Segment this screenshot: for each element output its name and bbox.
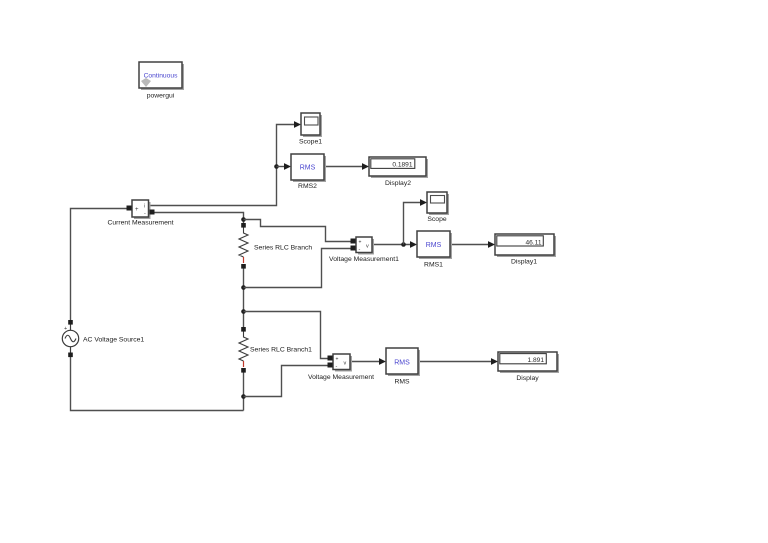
svg-text:RMS2: RMS2: [298, 183, 317, 190]
Series RLC Branch1 bottom port: [241, 368, 246, 373]
svg-text:+: +: [135, 207, 139, 213]
svg-text:v: v: [366, 244, 369, 250]
svg-text:Display1: Display1: [511, 259, 537, 266]
arrowhead into Display1: [488, 241, 495, 248]
powergui block: [139, 62, 184, 90]
wire: Series RLC Branch1 bottom down to bottom rail: [243, 371, 245, 411]
svg-text:Voltage Measurement: Voltage Measurement: [308, 374, 374, 381]
voltage measurement - port: [328, 363, 333, 368]
svg-text:Display: Display: [516, 375, 539, 382]
arrowhead into Display: [491, 358, 498, 365]
svg-text:+: +: [64, 326, 67, 332]
wire: RMS1 output to Display1: [450, 244, 493, 246]
svg-text:Voltage Measurement1: Voltage Measurement1: [329, 256, 399, 263]
node: junction on branch-top wire feeding Voltage Measurement1 +: [241, 217, 246, 222]
node: junction feeding Scope: [401, 242, 406, 247]
voltage measurement + port: [328, 356, 333, 361]
wire: Series RLC Branch bottom down to lower junction: [243, 267, 245, 328]
Series RLC Branch1 top port: [241, 327, 246, 332]
wire: Voltage Measurement1 v output to RMS1: [372, 244, 415, 246]
svg-text:RMS: RMS: [394, 379, 410, 386]
wire: junction to Voltage Measurement - input: [244, 366, 330, 397]
current measurement block: [132, 200, 151, 219]
RMS1 block: [417, 231, 452, 259]
svg-text:-: -: [144, 211, 146, 217]
svg-text:RMS: RMS: [394, 360, 410, 367]
arrowhead into RMS1: [410, 241, 417, 248]
svg-text:AC Voltage Source1: AC Voltage Source1: [83, 337, 144, 344]
wire: junction to Voltage Measurement + input: [244, 312, 330, 359]
RMS2 block: [291, 154, 326, 182]
wire: junction to Voltage Measurement1 - input: [244, 249, 352, 288]
svg-text:RMS1: RMS1: [424, 262, 443, 269]
svg-text:i: i: [144, 204, 145, 210]
current measurement - port: [150, 210, 155, 215]
arrowhead into RMS2: [284, 163, 291, 170]
svg-text:+: +: [336, 357, 339, 363]
wire: Voltage Measurement v output to RMS: [350, 361, 384, 363]
node: junction to Voltage Measurement -: [241, 394, 246, 399]
wire: Current Measurement - terminal to Series RLC Branch top: [152, 213, 244, 225]
svg-text:Series RLC Branch1: Series RLC Branch1: [250, 347, 312, 354]
arrowhead into Scope: [420, 199, 427, 206]
wire: AC source + terminal up and right to Current Measurement +: [71, 209, 128, 322]
Display1 block: [495, 234, 556, 257]
node: junction to Voltage Measurement1 -: [241, 285, 246, 290]
wire: junction to Voltage Measurement1 + input: [244, 220, 352, 242]
svg-text:Continuous: Continuous: [144, 73, 178, 80]
node: junction feeding RMS2: [274, 164, 279, 169]
arrowhead into Scope1: [294, 121, 301, 128]
wire: RMS2 output to Display2: [324, 166, 367, 168]
Display block: [498, 352, 559, 373]
svg-text:-: -: [336, 364, 338, 370]
wire: bottom rail back to AC source - terminal: [71, 356, 244, 411]
svg-text:46.11: 46.11: [525, 239, 541, 246]
svg-text:Display2: Display2: [385, 180, 411, 187]
resistor Series RLC Branch: [239, 227, 248, 263]
Series RLC Branch bottom port: [241, 264, 246, 269]
resistor Series RLC Branch1: [239, 331, 248, 367]
arrowhead into RMS: [379, 358, 386, 365]
AC Voltage Source1 - port: [68, 353, 73, 358]
AC voltage source AC Voltage Source1: [62, 322, 78, 355]
voltage measurement1 block: [356, 237, 374, 255]
svg-text:1.891: 1.891: [527, 357, 544, 364]
wire: junction to RMS2 input: [277, 166, 290, 168]
arrowhead into Display2: [362, 163, 369, 170]
svg-text:Scope: Scope: [427, 216, 446, 223]
Series RLC Branch top port: [241, 223, 246, 228]
wire: RMS output to Display: [418, 361, 496, 363]
svg-text:RMS: RMS: [300, 165, 316, 172]
scope Scope: [427, 192, 449, 215]
svg-text:powergui: powergui: [147, 93, 175, 100]
voltage measurement1 + port: [351, 239, 356, 244]
svg-text:-: -: [359, 247, 361, 253]
Display2 block: [369, 157, 428, 178]
wire: junction up to Scope input: [404, 203, 426, 245]
svg-text:Scope1: Scope1: [299, 139, 322, 146]
voltage measurement block: [333, 354, 352, 372]
voltage measurement1 - port: [351, 246, 356, 251]
scope Scope1: [301, 113, 322, 137]
RMS block: [386, 348, 420, 376]
wire: Current Measurement i output up to Scope1: [148, 125, 299, 206]
node: junction to Voltage Measurement +: [241, 309, 246, 314]
svg-text:Series RLC Branch: Series RLC Branch: [254, 245, 312, 252]
svg-text:Current Measurement: Current Measurement: [107, 220, 173, 227]
svg-text:v: v: [344, 361, 347, 367]
current measurement + port: [127, 206, 132, 211]
svg-text:+: +: [359, 240, 362, 246]
AC Voltage Source1 + port: [68, 320, 73, 325]
svg-text:RMS: RMS: [426, 242, 442, 249]
svg-text:0.1891: 0.1891: [392, 162, 413, 169]
